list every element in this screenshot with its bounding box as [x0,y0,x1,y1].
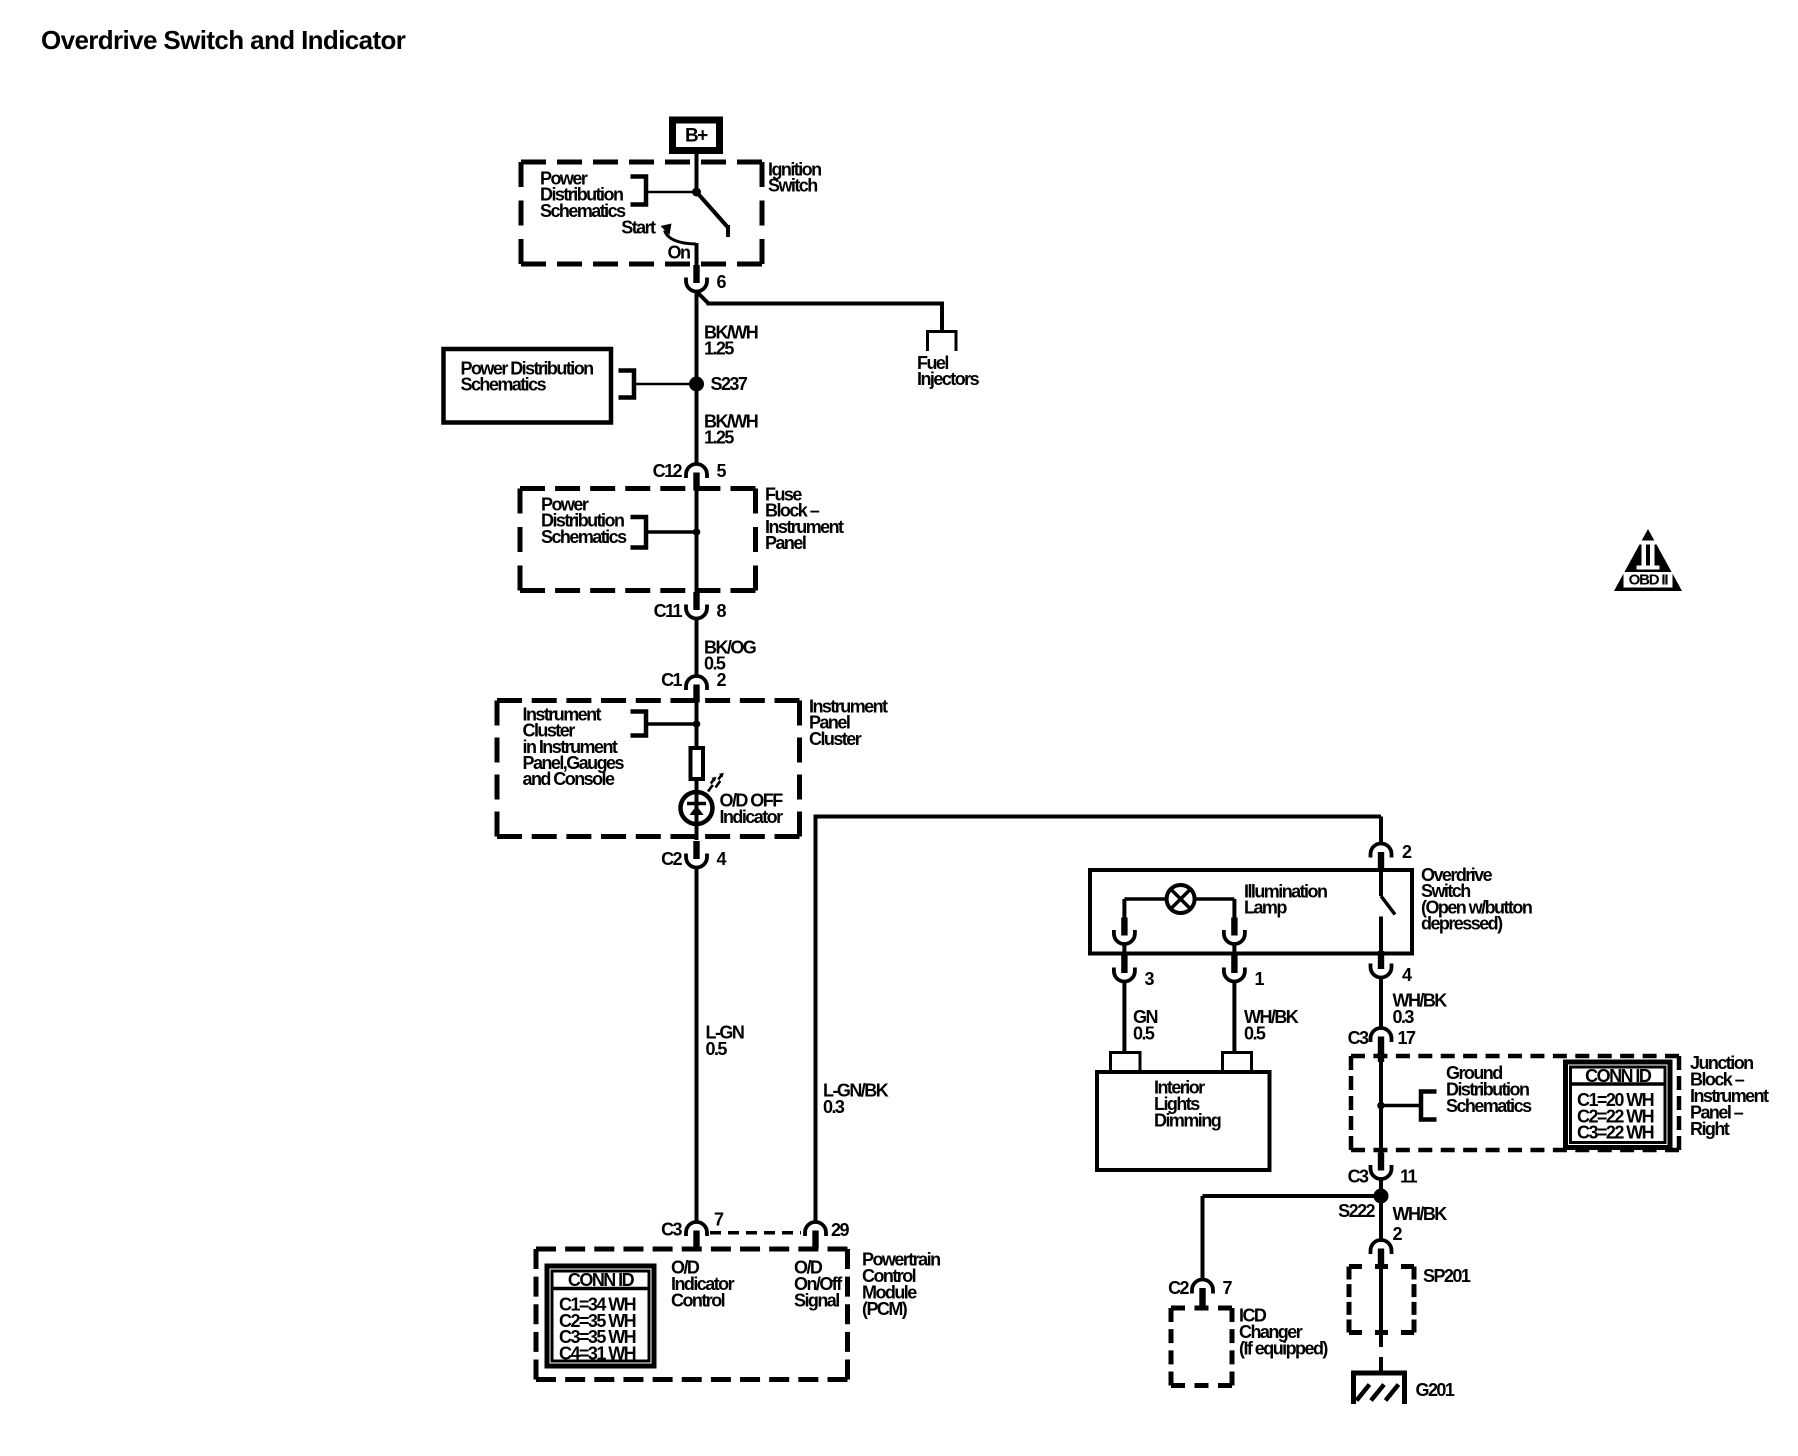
svg-text:Signal: Signal [794,1290,839,1310]
svg-text:S237: S237 [711,374,748,394]
svg-text:(PCM): (PCM) [862,1299,908,1319]
svg-text:0.3: 0.3 [823,1097,845,1117]
svg-text:Dimming: Dimming [1154,1110,1221,1130]
svg-text:C3=22 WH: C3=22 WH [1577,1123,1654,1143]
svg-text:Schematics: Schematics [1446,1096,1532,1116]
svg-text:OBD II: OBD II [1629,572,1669,589]
svg-text:0.5: 0.5 [1244,1023,1266,1043]
svg-text:29: 29 [831,1220,849,1240]
svg-text:Panel: Panel [765,533,806,553]
svg-text:C12: C12 [653,461,683,481]
svg-text:B+: B+ [685,126,708,147]
svg-text:Injectors: Injectors [917,369,980,389]
svg-text:G201: G201 [1416,1380,1455,1400]
svg-text:Start: Start [621,217,656,237]
svg-text:1.25: 1.25 [704,427,734,447]
svg-text:Right: Right [1690,1119,1730,1139]
svg-text:0.3: 0.3 [1393,1007,1415,1027]
svg-text:On: On [668,242,690,262]
svg-text:11: 11 [1400,1166,1417,1186]
svg-text:Schematics: Schematics [541,527,627,547]
svg-text:17: 17 [1398,1028,1416,1048]
svg-text:S222: S222 [1338,1201,1375,1221]
svg-text:and Console: and Console [523,769,615,789]
svg-text:SP201: SP201 [1423,1266,1471,1286]
svg-text:C4=31 WH: C4=31 WH [559,1344,636,1364]
svg-text:C2: C2 [661,849,682,869]
svg-text:C11: C11 [654,601,683,621]
svg-text:0.5: 0.5 [1133,1023,1155,1043]
svg-text:C1: C1 [661,670,682,690]
svg-text:C3: C3 [1348,1028,1369,1048]
svg-text:Overdrive Switch and Indicator: Overdrive Switch and Indicator [41,25,406,55]
svg-text:C3: C3 [661,1219,682,1239]
svg-text:Schematics: Schematics [540,201,626,221]
svg-text:Switch: Switch [768,175,817,195]
svg-text:0.5: 0.5 [706,1039,728,1059]
svg-text:Control: Control [671,1290,725,1310]
svg-text:Schematics: Schematics [461,374,547,394]
svg-text:1.25: 1.25 [704,338,734,358]
svg-text:Lamp: Lamp [1244,897,1287,917]
svg-text:C3: C3 [1348,1166,1369,1186]
svg-text:C2: C2 [1168,1278,1189,1298]
svg-text:Cluster: Cluster [809,729,862,749]
svg-text:Indicator: Indicator [720,807,784,827]
svg-text:WH/BK: WH/BK [1393,1204,1448,1224]
svg-text:(If equipped): (If equipped) [1239,1338,1328,1358]
svg-text:depressed): depressed) [1421,914,1503,934]
